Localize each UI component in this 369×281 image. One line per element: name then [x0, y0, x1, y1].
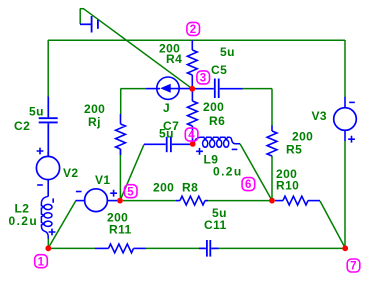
wire stub of input capacitor [79, 9, 81, 25]
svg-text:5u: 5u [220, 45, 235, 59]
resistor R10 right lead [308, 200, 320, 202]
capacitor C2 bottom lead [47, 124, 49, 157]
wire R5 column upper [271, 89, 273, 126]
capacitor C5 right plate [218, 79, 220, 99]
resistor R11 right lead [134, 247, 147, 249]
current source J arrow head [160, 84, 171, 93]
resistor R6 bottom lead [192, 126, 194, 144]
voltage source V3 bottom lead [344, 130, 346, 141]
resistor R5 top lead [271, 126, 273, 132]
plus mark V2 [37, 148, 44, 155]
resistor R8 left lead [176, 200, 180, 202]
node 1 number tag [35, 255, 48, 269]
wire top corner of input capacitor [80, 8, 84, 10]
resistor R10 left lead [275, 200, 283, 202]
capacitor C11 right plate [209, 240, 211, 257]
minus mark L2 [52, 198, 54, 202]
current source J circle [157, 77, 179, 99]
svg-text:C11: C11 [204, 218, 227, 232]
wire right drop from top rail [344, 40, 346, 97]
resistor R4 top lead [191, 40, 193, 50]
current source J arrow line [170, 88, 195, 90]
current source J left lead [146, 88, 160, 90]
plus mark V3 [348, 136, 355, 143]
capacitor C11 left plate [206, 240, 208, 257]
inductor L2 coil [41, 196, 52, 238]
voltage source V1 circle [85, 189, 108, 212]
node 3 number tag [197, 71, 210, 85]
svg-text:5u: 5u [159, 127, 174, 141]
resistor Rj zigzag [116, 124, 126, 149]
resistor R5 zigzag [267, 131, 277, 156]
voltage source V2 top lead [47, 152, 49, 156]
voltage source V1 left lead [76, 200, 85, 202]
capacitor C7 right lead [172, 143, 191, 145]
minus mark V2 [37, 184, 43, 186]
capacitor C2 top lead [47, 97, 49, 118]
minus mark L9 [232, 148, 238, 150]
node 4 number tag [185, 128, 198, 142]
capacitor C5 right lead [220, 88, 243, 90]
voltage source V2 circle [36, 156, 59, 179]
svg-text:C5: C5 [211, 63, 227, 77]
svg-text:R5: R5 [286, 143, 302, 157]
resistor R6 top lead [191, 89, 193, 101]
resistor Rj bottom lead [120, 149, 122, 155]
wire node 5 diagonal to C7 [120, 144, 144, 200]
svg-text:V2: V2 [63, 166, 78, 180]
node 7 number tag [347, 259, 360, 273]
svg-text:200: 200 [203, 100, 224, 114]
minus mark V1 [76, 191, 82, 193]
svg-text:Rj: Rj [88, 115, 101, 129]
wire L2 to node 1 [47, 238, 49, 246]
wire Rj column upper [120, 89, 122, 115]
capacitor C7 left lead [144, 143, 166, 145]
wire diagonal to node 3 [84, 9, 193, 89]
svg-text:0.2u: 0.2u [9, 214, 39, 228]
capacitor C7 left plate [166, 137, 168, 152]
svg-text:7: 7 [350, 261, 357, 273]
wire L9 diagonal to node 6 [240, 144, 272, 201]
voltage source V2 bottom lead [47, 180, 49, 197]
svg-text:V3: V3 [312, 109, 327, 123]
svg-text:5: 5 [127, 186, 134, 198]
capacitor C11 right lead [211, 247, 218, 249]
node 6 junction dot [269, 198, 275, 204]
resistor Rj top lead [120, 114, 122, 124]
capacitor input short plate [97, 20, 99, 29]
wire V3 to node 7 [344, 141, 346, 249]
resistor R6 zigzag [187, 101, 197, 126]
wire R5 column lower [271, 156, 273, 201]
capacitor input long plate [91, 16, 93, 33]
wire Rj bottom to node 5 [119, 150, 121, 201]
svg-text:4: 4 [188, 130, 195, 142]
node 5 number tag [124, 185, 137, 199]
svg-text:200: 200 [292, 130, 313, 144]
wire R11 to C11 [146, 247, 200, 249]
wire left drop from top rail [47, 40, 49, 97]
voltage source V3 top lead [344, 97, 346, 108]
node 5 junction dot [117, 198, 123, 204]
resistor R11 left lead [95, 247, 109, 249]
svg-text:0.2u: 0.2u [213, 165, 243, 179]
svg-text:2: 2 [190, 24, 197, 36]
capacitor C2 top plate [39, 117, 58, 119]
svg-text:5u: 5u [29, 105, 44, 119]
node 4 junction dot [190, 141, 196, 147]
svg-text:R6: R6 [209, 114, 225, 128]
svg-text:R11: R11 [109, 223, 132, 237]
wire top rail [48, 39, 345, 41]
svg-text:R4: R4 [166, 52, 182, 66]
capacitor C7 right plate [170, 137, 172, 152]
wire R10 diagonal to node 7 [320, 201, 345, 248]
wire J left to Rj column [121, 88, 147, 90]
svg-text:V1: V1 [95, 173, 110, 187]
wire C5 to R5 corner [243, 88, 273, 90]
resistor R10 zigzag [283, 196, 308, 205]
wire R8 to node 6 [208, 200, 273, 202]
plus mark L9 [196, 148, 203, 155]
resistor R4 zigzag [187, 50, 197, 75]
minus mark V3 [349, 101, 355, 103]
node 6 number tag [242, 178, 255, 192]
node 1 junction dot [45, 245, 51, 251]
resistor R8 right lead [205, 200, 208, 202]
node 2 number tag [187, 22, 200, 36]
resistor R11 zigzag [109, 244, 134, 253]
resistor R8 zigzag [180, 196, 205, 205]
wire node 5 to R8 [123, 200, 177, 202]
resistor R4 bottom lead [191, 75, 193, 89]
voltage source V1 right lead [108, 200, 121, 202]
svg-text:200: 200 [153, 181, 174, 195]
svg-text:C2: C2 [14, 119, 30, 133]
node 7 junction dot [342, 245, 348, 251]
capacitor C11 left lead [199, 247, 206, 249]
svg-text:R8: R8 [182, 181, 198, 195]
svg-text:6: 6 [245, 179, 252, 191]
voltage source V3 circle [334, 108, 357, 131]
svg-text:3: 3 [200, 73, 207, 85]
wire C11 to node 7 [219, 247, 346, 249]
wire node 1 diagonal to V1 [48, 201, 76, 248]
capacitor C2 bottom plate [39, 121, 58, 123]
wire bottom rail left [48, 247, 95, 249]
svg-text:R10: R10 [276, 179, 299, 193]
svg-text:1: 1 [38, 256, 45, 268]
capacitor C5 left plate [214, 79, 216, 99]
inductor L9 coil [194, 137, 240, 147]
plus mark V1 [110, 190, 117, 197]
capacitor input plate lead [80, 23, 91, 25]
capacitor C5 left lead [195, 88, 214, 90]
node 3 junction dot [189, 86, 195, 92]
plus mark L2 [49, 229, 56, 236]
svg-text:J: J [163, 101, 170, 115]
svg-text:200: 200 [84, 102, 105, 116]
